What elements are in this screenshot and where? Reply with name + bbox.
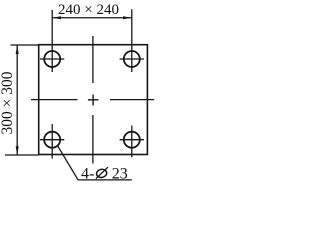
- phi symbol ellipse: [96, 168, 108, 178]
- arrowhead up (left dimension): [16, 45, 19, 54]
- svg-text:240 × 240: 240 × 240: [58, 2, 119, 18]
- hole top-right horizontal centerline: [120, 58, 144, 60]
- hole bottom-left circle: [44, 132, 60, 148]
- hole top-right circle: [124, 51, 140, 67]
- plate horizontal centerline dash left: [31, 99, 78, 101]
- hole top-left circle: [44, 51, 60, 67]
- arrowhead down (left dimension): [16, 146, 19, 155]
- extension line bottom-left (plate bottom edge extended): [5, 154, 39, 156]
- svg-text:300 × 300: 300 × 300: [0, 71, 16, 134]
- hole top-left horizontal centerline: [40, 58, 64, 60]
- plate vertical centerline short dash (center mark arm): [92, 95, 94, 106]
- arrowhead right (top dimension): [123, 16, 132, 19]
- hole bottom-right vertical centerline: [131, 126, 133, 158]
- extension line / centerline through top-right hole: [131, 9, 133, 72]
- dimension line 300 (left): [16, 45, 18, 155]
- hole bottom-left vertical centerline: [51, 124, 53, 159]
- leader line from bottom-left hole: [57, 145, 78, 180]
- plate horizontal centerline dash right: [110, 99, 154, 101]
- plate horizontal centerline short dash (center mark arm): [88, 99, 99, 101]
- plate outline (300x300 square flange): [39, 45, 148, 155]
- leader underline: [78, 179, 132, 181]
- plate vertical centerline dash bottom: [92, 115, 94, 164]
- hole bottom-left horizontal centerline: [40, 139, 64, 141]
- extension line / centerline through top-left hole: [51, 10, 53, 72]
- hole bottom-right circle: [124, 132, 140, 148]
- hole bottom-right horizontal centerline: [120, 139, 144, 141]
- plate vertical centerline dash top: [92, 36, 94, 83]
- dimension line 240 (top): [52, 17, 132, 19]
- extension line top-left (plate top edge extended): [11, 44, 39, 46]
- arrowhead left (top dimension): [52, 16, 61, 19]
- phi symbol slanted stem: [96, 167, 108, 179]
